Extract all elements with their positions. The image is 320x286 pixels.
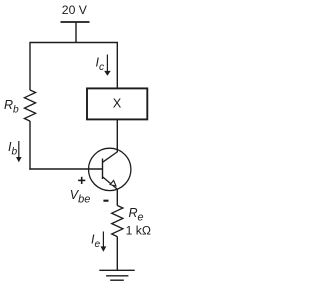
wire: block to transistor collector [116,120,118,153]
current arrow Ib [16,141,22,162]
resistor Re [112,206,123,237]
transistor Q1 base bar [102,159,104,180]
wire: collector drop from rail to block [116,43,118,88]
label + (Vbe polarity) [78,177,85,184]
wire: left branch lower [29,121,31,170]
ground symbol [99,270,134,280]
label - (Vbe polarity) [103,200,108,202]
current arrow Ic [104,55,111,76]
wire: top rail [29,42,118,44]
wire: supply stub [75,22,77,43]
wire: emitter to Re [116,189,118,205]
transistor Q1 emitter arrowhead (open) [110,180,116,186]
supply terminal bar [61,21,90,23]
svg-text:X: X [113,96,122,111]
resistor Rb [24,90,35,121]
block X [87,88,147,119]
wire: Re to ground [116,237,118,271]
transistor Q1 collector stroke [103,152,118,163]
transistor Q1 emitter stroke [103,177,118,190]
svg-text:1 kΩ: 1 kΩ [126,224,151,238]
svg-text:20 V: 20 V [62,3,88,17]
wire: base wire [29,168,102,170]
current arrow Ie [101,232,107,252]
transistor Q1 body circle [89,148,131,190]
wire: left branch upper [29,43,31,91]
